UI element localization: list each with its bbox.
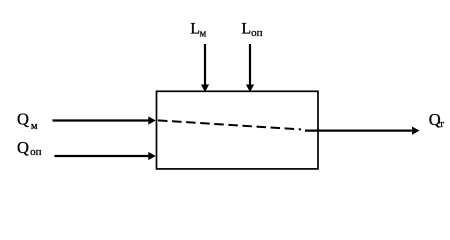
arrow Lоп (down into box) xyxy=(246,44,254,92)
arrow Qм (into box, left) xyxy=(53,116,156,124)
arrow Lм (down into box) xyxy=(201,44,209,92)
arrow Qт (out of box, right) xyxy=(305,127,420,135)
arrow Qоп (into box, left) xyxy=(55,152,156,160)
block (process box) xyxy=(157,91,319,169)
dashed mixing line inside box xyxy=(158,120,301,129)
